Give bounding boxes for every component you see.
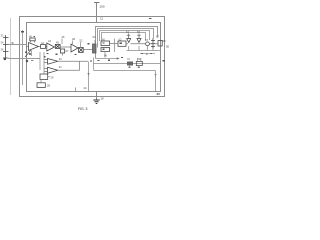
svg-text:FIG. 3: FIG. 3	[78, 107, 88, 111]
svg-text:18: 18	[101, 97, 105, 101]
svg-text:50: 50	[166, 45, 170, 49]
svg-text:12: 12	[100, 17, 104, 21]
svg-text:24: 24	[84, 86, 88, 90]
svg-text:20: 20	[157, 92, 161, 96]
svg-text:100: 100	[100, 5, 105, 9]
